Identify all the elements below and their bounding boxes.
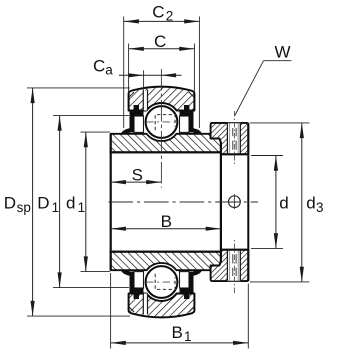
svg-text:C: C	[154, 32, 166, 51]
svg-text:d: d	[279, 194, 288, 213]
svg-text:1: 1	[184, 329, 192, 344]
svg-text:C: C	[152, 2, 164, 21]
svg-text:d: d	[66, 194, 75, 213]
svg-text:S: S	[132, 166, 143, 185]
svg-text:W: W	[275, 43, 291, 62]
svg-text:C: C	[93, 57, 105, 76]
svg-text:B: B	[172, 323, 183, 342]
svg-text:d: d	[306, 194, 315, 213]
svg-text:D: D	[37, 194, 49, 213]
svg-text:1: 1	[78, 200, 86, 215]
svg-text:B: B	[161, 212, 172, 231]
svg-text:1: 1	[52, 200, 60, 215]
svg-text:sp: sp	[17, 200, 31, 215]
svg-text:2: 2	[166, 9, 174, 24]
svg-text:D: D	[4, 194, 16, 213]
svg-text:a: a	[105, 62, 113, 77]
svg-text:3: 3	[316, 200, 324, 215]
